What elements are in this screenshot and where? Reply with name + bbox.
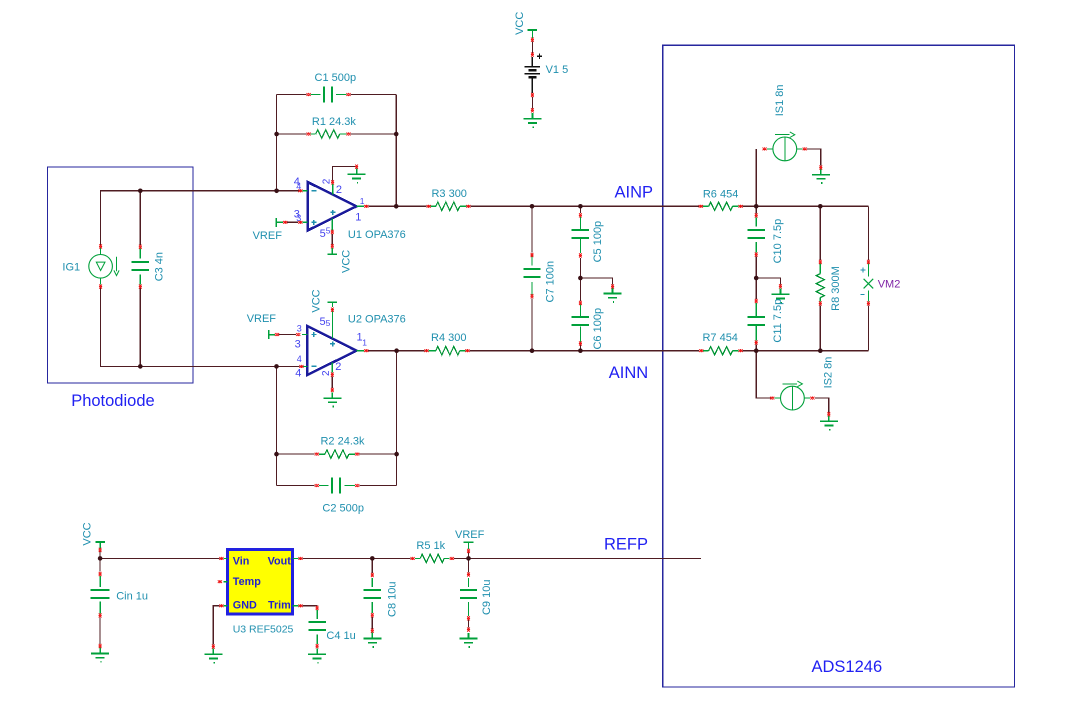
wire AINP net: U1 output to R3 — [368, 205, 426, 207]
junction at (140.3,366.4) — [138, 364, 143, 369]
svg-text:C8 10u: C8 10u — [387, 582, 399, 617]
svg-text:C6 100p: C6 100p — [592, 308, 604, 350]
svg-text:R7 454: R7 454 — [702, 332, 737, 344]
wire REFP net: U3 Vout to R5 — [303, 557, 411, 559]
wire VM2 bottom vertical — [867, 305, 869, 350]
wire AINP net: R3 to R6 — [470, 205, 698, 207]
capacitor C10 — [755, 217, 757, 252]
svg-text:IS2 8n: IS2 8n — [823, 357, 835, 389]
wire U2 noninverting input — [279, 334, 297, 336]
wire C3 top stub — [139, 191, 141, 245]
svg-text:U2 OPA376: U2 OPA376 — [348, 314, 406, 326]
wire C10 top — [755, 206, 757, 213]
wire C11 bottom — [755, 345, 757, 351]
svg-text:C1 500p: C1 500p — [315, 72, 357, 84]
svg-text:5: 5 — [326, 225, 331, 235]
svg-text:Photodiode: Photodiode — [71, 392, 155, 410]
resistor R4 — [428, 350, 465, 352]
junction at (396.2,134) — [394, 132, 399, 137]
capacitor C3 — [139, 249, 141, 285]
wire R1 row left — [277, 133, 307, 135]
battery V1 — [525, 54, 542, 93]
junction at (756.2,206.3) — [754, 204, 759, 209]
svg-text:VCC: VCC — [310, 289, 322, 312]
svg-text:Trim: Trim — [268, 599, 291, 611]
svg-text:2: 2 — [335, 361, 341, 373]
svg-text:Cin 1u: Cin 1u — [116, 591, 148, 603]
junction at (100.1,558.4) — [98, 556, 103, 561]
svg-text:2: 2 — [322, 178, 333, 184]
resistor R7 — [703, 350, 739, 352]
svg-text:VM2: VM2 — [878, 279, 901, 291]
wire R8 top — [819, 206, 821, 259]
svg-text:Vout: Vout — [268, 556, 292, 568]
wire C7 bottom — [531, 298, 533, 350]
svg-text:AINP: AINP — [615, 183, 654, 201]
wire V1 bottom — [531, 97, 533, 109]
wire C7 top — [531, 206, 533, 252]
wire U1 pin2 to ground — [333, 167, 357, 181]
Photodiode model box — [48, 167, 194, 383]
junction at (468.5,558.4) — [466, 556, 471, 561]
ground at IS1 — [812, 169, 830, 183]
capacitor C1 — [310, 94, 346, 96]
svg-text:VREF: VREF — [247, 313, 277, 325]
VREF terminal at U1 — [276, 218, 283, 227]
junction at (396.6,350.7) — [394, 348, 399, 353]
wire C9 lower — [468, 618, 470, 627]
svg-text:1: 1 — [355, 212, 361, 224]
junction at (396.6,454.1) — [394, 452, 399, 457]
junction at (532,350.7) — [530, 348, 535, 353]
svg-text:IG1: IG1 — [62, 261, 80, 273]
junction at (276.5,454.1) — [274, 452, 279, 457]
junction at (820.3,350.7) — [818, 348, 823, 353]
ground at C10 node — [771, 288, 789, 302]
wire V1 top — [531, 42, 533, 53]
VM2 plus mark — [860, 267, 865, 272]
svg-text:U3 REF5025: U3 REF5025 — [233, 624, 294, 636]
capacitor C6 — [579, 304, 581, 343]
wire Cin middle — [99, 558, 101, 571]
VREF terminal at R5 output — [468, 542, 470, 549]
wire U2 pin5 stub — [331, 302, 333, 306]
svg-text:C3 4n: C3 4n — [153, 252, 165, 281]
svg-text:5: 5 — [320, 228, 326, 240]
ground at C9 — [460, 633, 478, 647]
svg-text:GND: GND — [233, 599, 257, 611]
op-amp U1 OPA376 — [302, 182, 364, 231]
svg-text:C10 7.5p: C10 7.5p — [772, 219, 784, 264]
wire U1 feedback right vertical — [395, 95, 397, 207]
wire U1 pin5 to VCC — [331, 234, 333, 244]
wire IS2 right to ground corner — [815, 398, 829, 413]
svg-text:VCC: VCC — [340, 250, 352, 273]
svg-text:REFP: REFP — [604, 535, 648, 553]
VM2 minus mark — [860, 294, 864, 296]
resistor R5 — [415, 557, 450, 559]
svg-text:3: 3 — [295, 338, 301, 350]
resistor R1 — [310, 133, 346, 135]
wire C10 node to ground stub — [756, 278, 780, 284]
wire R1 row right — [351, 133, 397, 135]
junction at (820.3,206.3) — [818, 204, 823, 209]
wire AINN net: R7 to VM2 corner — [743, 350, 869, 352]
wire U1 noninverting input — [287, 221, 298, 223]
svg-text:ADS1246: ADS1246 — [812, 658, 883, 676]
wire C8 lower — [371, 617, 373, 629]
voltage reference U3 REF5025 — [228, 550, 293, 615]
capacitor C9 — [468, 578, 470, 616]
junction at (276.5,366.4) — [274, 364, 279, 369]
svg-text:2: 2 — [336, 184, 342, 196]
wire C1 row left — [277, 94, 307, 96]
svg-text:R4 300: R4 300 — [431, 332, 466, 344]
resistor R2 — [319, 453, 355, 455]
VCC rail at U1 pin5 — [331, 248, 333, 254]
svg-text:AINN: AINN — [609, 364, 648, 382]
svg-text:R2 24.3k: R2 24.3k — [320, 436, 365, 448]
svg-text:3: 3 — [297, 324, 302, 334]
wire U3 Trim to C4 corner — [303, 605, 318, 607]
junction at (276.6,134) — [274, 132, 279, 137]
ADS1246 ADC box — [663, 45, 1015, 687]
svg-text:C11 7.5p: C11 7.5p — [772, 299, 784, 343]
ground at U2 pin2 — [323, 392, 341, 406]
svg-text:V1 5: V1 5 — [546, 64, 569, 76]
wire VM2 top vertical — [867, 206, 869, 260]
ground below V1 — [523, 113, 541, 127]
VREF terminal at U2 — [269, 330, 275, 339]
svg-text:VCC: VCC — [82, 522, 94, 545]
svg-text:U1 OPA376: U1 OPA376 — [348, 229, 406, 241]
wire C2 row right — [359, 485, 396, 487]
junction at (756.2,278) — [754, 276, 759, 281]
junction at (756.2,350.7) — [754, 348, 759, 353]
svg-text:Temp: Temp — [233, 576, 261, 588]
svg-text:VREF: VREF — [455, 529, 485, 541]
wire R8 bottom — [819, 305, 821, 350]
wire C9 top — [468, 558, 470, 572]
wire C3 bottom stub — [139, 288, 141, 366]
junction at (532,206.3) — [530, 204, 535, 209]
svg-text:R6 454: R6 454 — [703, 189, 738, 201]
wire C2 row left — [277, 485, 315, 487]
svg-text:4: 4 — [297, 354, 302, 364]
VCC rail at REFP input — [99, 542, 101, 548]
wire C10 bottom to node — [755, 257, 757, 278]
capacitor C11 — [755, 303, 757, 340]
wire REFP net: VCC node to U3 Vin — [100, 551, 219, 558]
current source IS1 — [767, 132, 803, 161]
wire C1 row right — [351, 94, 397, 96]
U3 pin stubs — [223, 558, 298, 605]
wire R2 row left — [277, 453, 315, 455]
capacitor Cin — [99, 576, 101, 613]
wire AINP net: R6 to VM2 corner — [743, 205, 869, 207]
junction at (276.6,190.8) — [274, 189, 279, 194]
ground at C5-C6 midpoint — [604, 288, 622, 302]
wire U2 pin2 to ground — [331, 377, 333, 389]
wire U2 feedback right vertical — [396, 351, 398, 486]
wire U2 feedback left vertical — [276, 366, 278, 485]
wire C6 bottom — [579, 345, 581, 351]
capacitor C4 — [316, 610, 318, 644]
wire Cin lower — [99, 617, 101, 644]
wire AINN to IS2 drop — [756, 351, 771, 398]
svg-text:3: 3 — [296, 213, 301, 223]
junction at (372.3,558.4) — [370, 556, 375, 561]
voltmeter VM2 — [864, 264, 874, 302]
wire U3 GND to ground — [213, 606, 219, 645]
VCC rail at U2 pin5 — [331, 302, 333, 307]
current source IG1 — [89, 248, 119, 285]
wire AINN net: U2 output to R4 — [368, 350, 424, 352]
capacitor C5 — [579, 217, 581, 253]
wire AINN net: R4 to R7 — [470, 350, 700, 352]
ground at IS2 — [820, 416, 838, 430]
svg-text:C7 100n: C7 100n — [545, 261, 557, 303]
wire photodiode bottom net to U2 inverting input — [101, 288, 300, 367]
junction at (580.4,350.7) — [578, 348, 583, 353]
ground at C4 — [308, 648, 326, 662]
svg-text:VREF: VREF — [253, 230, 283, 242]
svg-text:R1 24.3k: R1 24.3k — [312, 116, 357, 128]
svg-text:C5 100p: C5 100p — [592, 221, 604, 263]
capacitor C2 — [319, 485, 355, 487]
resistor R8 — [819, 264, 821, 302]
svg-text:R3 300: R3 300 — [431, 188, 466, 200]
svg-text:R5 1k: R5 1k — [416, 540, 445, 552]
wire photodiode top net to U1 inverting input — [101, 191, 300, 245]
svg-text:4: 4 — [295, 368, 301, 380]
wire U1 feedback left vertical — [276, 95, 278, 191]
wire C8 top — [371, 558, 373, 573]
svg-text:1: 1 — [362, 337, 367, 347]
svg-text:5: 5 — [326, 318, 331, 328]
svg-text:C2 500p: C2 500p — [322, 503, 364, 515]
wire REFP net: R5 to box end — [454, 557, 701, 559]
svg-text:Vin: Vin — [233, 556, 250, 568]
ground at U1 pin2 — [348, 169, 366, 183]
junction at (396.2,206.3) — [394, 204, 399, 209]
ground at Cin — [91, 648, 109, 662]
junction at (140.3,190.8) — [138, 189, 143, 194]
junction at (580.4,278) — [578, 276, 583, 281]
wire C11 top — [755, 278, 757, 299]
wire C5 top — [579, 206, 581, 213]
wire mid node to ground stub — [580, 278, 612, 285]
wire C5 bottom to mid node — [579, 258, 581, 278]
ground at U3 GND — [204, 648, 222, 662]
current source IS2 — [774, 381, 810, 410]
VCC rail at V1 — [531, 30, 533, 38]
wire VREF terminal drop — [468, 552, 470, 558]
resistor R6 — [703, 205, 739, 207]
svg-text:VCC: VCC — [514, 12, 526, 35]
op-amp U2 OPA376 — [302, 308, 364, 375]
wire mid node to C6 — [579, 278, 581, 301]
wire R2 row right — [359, 453, 397, 455]
svg-text:4: 4 — [296, 181, 301, 191]
capacitor C7 — [531, 255, 533, 297]
resistor R3 — [431, 205, 467, 207]
svg-text:1: 1 — [360, 196, 365, 206]
svg-text:C4 1u: C4 1u — [326, 630, 355, 642]
wire IS1 left drop to AINP — [755, 149, 757, 206]
svg-text:R8 300M: R8 300M — [830, 266, 842, 311]
ground at C8 — [363, 633, 381, 647]
junction at (580.4,206.3) — [578, 204, 583, 209]
wire IS1 right to ground corner — [807, 149, 821, 165]
svg-text:C9 10u: C9 10u — [481, 580, 493, 615]
capacitor C8 — [371, 578, 373, 613]
svg-text:IS1 8n: IS1 8n — [774, 84, 786, 116]
svg-text:2: 2 — [321, 370, 332, 376]
